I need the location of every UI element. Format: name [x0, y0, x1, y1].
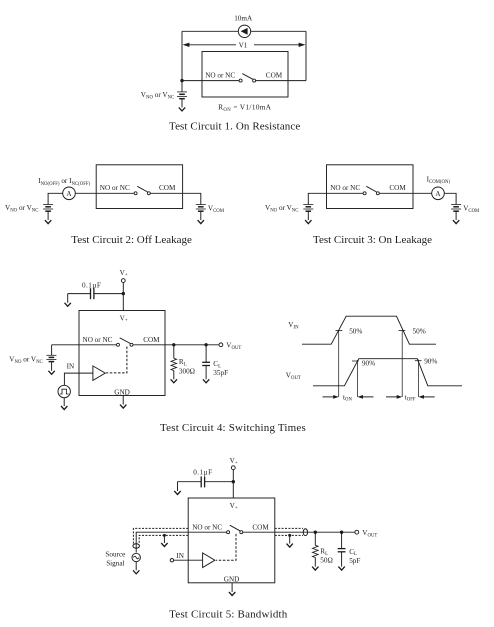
caption Test Circuit 2: [71, 234, 192, 246]
label VOUT waveform: [286, 372, 301, 382]
label NO or NC (circuit 3): [330, 184, 360, 192]
node COM-RL (circuit 4): [172, 343, 175, 346]
node COM-CL (circuit 5): [340, 531, 343, 534]
label NO or NC (circuit 5): [192, 523, 222, 531]
svg-text:90%: 90%: [424, 358, 437, 366]
ground (source generator): [133, 562, 139, 574]
svg-text:CL: CL: [349, 548, 357, 557]
label VNO or VNC (circuit 2): [5, 204, 38, 214]
label 90% left: [362, 359, 375, 367]
tON arrow right: [358, 395, 374, 399]
tick 50% rising: [336, 329, 343, 331]
caption Test Circuit 5: [169, 608, 288, 620]
shield cup left (circuit 5): [133, 544, 140, 548]
ground (pulse generator): [61, 398, 67, 410]
shield end circle right (circuit 5): [303, 529, 307, 536]
svg-text:V+: V+: [230, 457, 238, 466]
wire battery to NO pin circuit 4: [52, 344, 117, 346]
label CL 5pF: [349, 548, 360, 565]
tick 50% falling: [399, 329, 406, 331]
switch box U1 circuit 2: [96, 165, 182, 209]
svg-text:Signal: Signal: [106, 560, 124, 568]
wire COM pin circuit 1: [256, 80, 306, 82]
current source I1: [238, 25, 250, 37]
svg-text:GND: GND: [114, 388, 130, 396]
svg-text:COM: COM: [266, 71, 283, 79]
switch S1 circuit 5: [227, 525, 243, 534]
svg-text:VNO or VNC: VNO or VNC: [5, 204, 38, 214]
switch S1: [239, 74, 256, 83]
label VIN waveform: [288, 321, 299, 331]
label V+ supply (circuit 5): [230, 457, 238, 466]
svg-text:VNO or VNC: VNO or VNC: [265, 204, 298, 214]
terminal IN circuit 5: [170, 559, 173, 562]
node shield-ground left (circuit 5): [163, 534, 166, 537]
label COM (circuit 2): [159, 184, 176, 192]
label VNO or VNC (circuit 3): [265, 204, 298, 214]
svg-text:VOUT: VOUT: [362, 529, 377, 539]
ground (circuit 4 bypass): [65, 294, 71, 307]
svg-text:RON = V1/10mA: RON = V1/10mA: [218, 103, 272, 113]
label 50% right: [413, 328, 426, 336]
op-amp buffer U2 (circuit 4): [93, 366, 105, 381]
resistor RL 50ohm circuit 5: [313, 532, 319, 566]
guide line tON end: [357, 360, 359, 397]
svg-text:COM: COM: [143, 336, 160, 344]
wire COM pin circuit 4: [133, 344, 165, 346]
svg-text:NO or NC: NO or NC: [100, 184, 130, 192]
label 10mA: [234, 14, 253, 22]
ground (right shield): [287, 535, 293, 547]
caption Test Circuit 1: [169, 121, 300, 133]
switch box U1: [202, 52, 288, 98]
capacitor C2 0.1uF circuit 4: [68, 288, 124, 299]
svg-text:VCOM: VCOM: [463, 204, 480, 214]
ground (circuit 2 left): [45, 220, 51, 224]
svg-text:tON: tON: [343, 393, 352, 402]
svg-text:NO or NC: NO or NC: [83, 336, 113, 344]
svg-text:50Ω: 50Ω: [320, 556, 333, 564]
switch S1 circuit 2: [134, 186, 150, 195]
battery VCOM circuit 3: [451, 205, 461, 221]
terminal V+ circuit 4: [121, 279, 125, 283]
capacitor CL 35pF circuit 4: [202, 345, 210, 380]
switch box U1 circuit 3: [327, 165, 414, 209]
ground (circuit 4 GND pin): [120, 405, 126, 409]
svg-text:A: A: [435, 190, 441, 198]
svg-text:CL: CL: [213, 360, 221, 369]
label V+ supply (circuit 4): [120, 269, 128, 278]
op-amp buffer U2 (circuit 5): [203, 553, 215, 568]
svg-text:ICOM(ON): ICOM(ON): [427, 175, 451, 185]
caption Test Circuit 3: [313, 234, 432, 246]
label NO or NC (U1): [205, 71, 235, 79]
svg-text:COM: COM: [389, 184, 406, 192]
wire ammeter to VCOM circuit 3: [444, 193, 456, 204]
svg-text:IN: IN: [176, 552, 184, 560]
ground (circuit 5 bypass): [174, 482, 180, 495]
wire source to box circuit 3: [308, 193, 364, 204]
guide line tOFF end: [418, 360, 420, 398]
ammeter A1: [63, 187, 76, 200]
ammeter A2: [432, 187, 445, 200]
label COM (circuit 5): [252, 523, 269, 531]
node COM-RL (circuit 5): [314, 531, 317, 534]
wire COM pin circuit 5: [243, 531, 355, 533]
wire V+ to box circuit 5: [232, 470, 234, 498]
wire IN to buffer circuit 5: [174, 559, 203, 561]
label VNO or VNC (circuit 1): [141, 91, 174, 101]
label VNO or VNC (circuit 4): [9, 356, 42, 366]
svg-text:V+: V+: [120, 315, 128, 324]
svg-text:35pF: 35pF: [213, 369, 228, 377]
ground (circuit 1 battery): [179, 107, 185, 111]
label GND (circuit 5): [224, 575, 240, 583]
wire source to NO pin circuit 5: [136, 532, 226, 552]
dashed control line (circuit 4): [106, 347, 127, 373]
label V1: [239, 41, 248, 49]
ground (left shield): [161, 535, 167, 546]
ground (RL circuit 4): [171, 379, 177, 383]
tON arrow left: [323, 395, 339, 399]
battery source circuit 3: [303, 205, 313, 221]
label tOFF: [405, 393, 416, 402]
svg-text:5pF: 5pF: [349, 557, 360, 565]
label 90% right: [424, 358, 437, 366]
ground (circuit 2 right): [198, 220, 204, 224]
tick 90% rising: [352, 360, 359, 362]
wire NO pin circuit 1: [182, 80, 239, 82]
wire IN to buffer circuit 4: [64, 373, 93, 385]
svg-text:50%: 50%: [413, 328, 426, 336]
svg-text:A: A: [66, 190, 72, 198]
svg-text:VNO or VNC: VNO or VNC: [9, 356, 42, 366]
label V+ pin (circuit 4 box): [120, 315, 128, 324]
V1 measurement arrows: [183, 43, 306, 47]
label RON equation: [218, 103, 272, 113]
dashed control line (circuit 5): [216, 534, 236, 560]
svg-text:IN: IN: [67, 362, 75, 370]
svg-text:NO or NC: NO or NC: [192, 523, 222, 531]
node shield-ground right (circuit 5): [288, 534, 291, 537]
wire COM to VOUT circuit 4: [165, 344, 219, 346]
svg-text:50%: 50%: [349, 328, 362, 336]
wire right vertical circuit 1: [305, 31, 307, 80]
svg-text:COM: COM: [252, 523, 269, 531]
ground (CL circuit 4): [203, 379, 209, 383]
svg-text:V+: V+: [230, 502, 238, 511]
switch box U1 circuit 4: [79, 311, 165, 396]
wire GND pin circuit 5: [231, 583, 233, 592]
shield dashed outer left (circuit 5): [133, 528, 188, 544]
ground (circuit 3 left): [305, 220, 311, 224]
label COM (circuit 4): [143, 336, 160, 344]
terminal VOUT circuit 5: [355, 530, 359, 534]
ground (circuit 4 battery): [48, 371, 54, 375]
VIN waveform trace: [302, 316, 436, 344]
svg-text:VOUT: VOUT: [226, 342, 241, 352]
label 50% left: [349, 328, 362, 336]
tOFF arrow right: [419, 395, 435, 399]
wire COM to VCOM circuit 2: [151, 193, 201, 204]
node supply (circuit 4): [122, 292, 125, 295]
svg-text:NO or NC: NO or NC: [330, 184, 360, 192]
source generator V3 (circuit 5): [132, 553, 140, 561]
wire ammeter to box circuit 2: [75, 192, 135, 194]
guide line tOFF start: [401, 330, 403, 397]
label INO(OFF) or INC(OFF): [38, 177, 90, 187]
svg-text:VNO or VNC: VNO or VNC: [141, 91, 174, 101]
capacitor CL 5pF circuit 5: [338, 532, 346, 566]
svg-text:0.1µF: 0.1µF: [193, 469, 212, 477]
node A (circuit 1): [180, 79, 183, 82]
label RL 300ohm: [179, 358, 195, 375]
battery V1 source circuit 1: [177, 81, 187, 108]
label NO or NC (circuit 4): [83, 336, 113, 344]
label 0.1uF (circuit 5): [193, 469, 212, 477]
tOFF arrow left: [386, 395, 402, 399]
ground (RL circuit 5): [312, 567, 318, 571]
wire V+ to node circuit 4: [122, 283, 124, 311]
wire GND pin circuit 4: [122, 396, 124, 405]
svg-text:INO(OFF) or INC(OFF): INO(OFF) or INC(OFF): [38, 177, 90, 187]
ground (CL circuit 5): [338, 567, 344, 571]
svg-text:300Ω: 300Ω: [179, 368, 195, 376]
label VCOM (circuit 2): [208, 204, 225, 214]
label VOUT (circuit 5): [362, 529, 377, 539]
terminal V+ circuit 5: [231, 466, 235, 470]
label Source Signal: [105, 550, 125, 567]
label CL 35pF: [213, 360, 228, 377]
resistor RL 300ohm circuit 4: [171, 345, 177, 380]
battery VCOM circuit 2: [196, 205, 206, 221]
svg-text:tOFF: tOFF: [405, 393, 416, 402]
svg-text:Test Circuit 1. On Resistance: Test Circuit 1. On Resistance: [169, 121, 300, 133]
svg-text:0.1µF: 0.1µF: [82, 281, 101, 289]
battery source circuit 2: [43, 205, 53, 221]
battery source circuit 4: [46, 345, 56, 371]
svg-text:VOUT: VOUT: [286, 372, 301, 382]
wire COM to ammeter circuit 3: [380, 192, 432, 194]
svg-text:VCOM: VCOM: [208, 204, 225, 214]
label ICOM(ON): [427, 175, 451, 185]
capacitor C2 0.1uF circuit 5: [178, 476, 234, 487]
svg-text:VIN: VIN: [288, 321, 299, 331]
svg-text:Test Circuit 5: Bandwidth: Test Circuit 5: Bandwidth: [169, 608, 288, 620]
svg-text:10mA: 10mA: [234, 14, 253, 22]
VOUT waveform trace: [313, 359, 462, 386]
label VOUT (circuit 4): [226, 342, 241, 352]
label RL 50ohm: [320, 547, 333, 564]
switch box U1 circuit 5: [188, 498, 275, 583]
svg-text:RL: RL: [320, 547, 328, 556]
svg-text:RL: RL: [179, 358, 187, 367]
shield dashed inner right (circuit 5): [275, 534, 303, 536]
caption Test Circuit 4: [160, 422, 306, 434]
pulse generator V2 (circuit 4): [58, 385, 70, 397]
switch S1 circuit 4: [117, 338, 134, 347]
label IN (circuit 4): [67, 362, 75, 370]
tick 90% falling: [415, 360, 422, 362]
label IN (circuit 5): [176, 552, 184, 560]
svg-text:Source: Source: [105, 550, 125, 558]
switch S1 circuit 3: [363, 186, 379, 195]
label GND (circuit 4): [114, 388, 130, 396]
wire top rail circuit 1: [182, 30, 306, 32]
svg-text:Test Circuit 4: Switching Time: Test Circuit 4: Switching Times: [160, 422, 306, 434]
svg-text:V1: V1: [239, 41, 248, 49]
label 0.1uF (circuit 4): [82, 281, 101, 289]
wire source to ammeter circuit 2: [48, 193, 63, 204]
shield dashed inner left (circuit 5): [139, 535, 188, 544]
svg-text:Test Circuit 2: Off Leakage: Test Circuit 2: Off Leakage: [71, 234, 192, 246]
svg-text:COM: COM: [159, 184, 176, 192]
label VCOM (circuit 3): [463, 204, 480, 214]
svg-text:Test Circuit 3: On Leakage: Test Circuit 3: On Leakage: [313, 234, 432, 246]
node COM-CL (circuit 4): [204, 343, 207, 346]
label NO or NC (circuit 2): [100, 184, 130, 192]
ground (circuit 3 right): [453, 220, 459, 224]
label tON: [343, 393, 352, 402]
label COM (circuit 3): [389, 184, 406, 192]
svg-text:GND: GND: [224, 575, 240, 583]
node supply (circuit 5): [232, 480, 235, 483]
wire left vertical circuit 1: [181, 31, 183, 80]
guide line tON start: [338, 330, 340, 397]
label COM (U1): [266, 71, 283, 79]
svg-text:90%: 90%: [362, 359, 375, 367]
terminal VOUT circuit 4: [219, 343, 223, 347]
label V+ pin (circuit 5 box): [230, 502, 238, 511]
shield dashed outer right (circuit 5): [275, 527, 303, 529]
svg-text:NO or NC: NO or NC: [205, 71, 235, 79]
svg-text:V+: V+: [120, 269, 128, 278]
ground (circuit 5 GND pin): [229, 592, 235, 596]
